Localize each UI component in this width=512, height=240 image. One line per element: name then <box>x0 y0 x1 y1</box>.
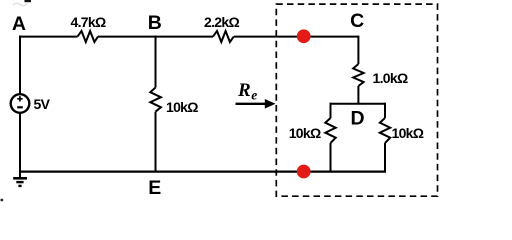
svg-text:1.0kΩ: 1.0kΩ <box>373 70 408 86</box>
wire right branch upper <box>384 103 386 118</box>
minus sign of source <box>17 106 23 108</box>
ground bar 1 <box>13 177 27 180</box>
junction dot bottom (red) <box>297 165 311 179</box>
ground stub <box>19 172 21 178</box>
svg-text:10kΩ: 10kΩ <box>166 99 198 115</box>
junction dot top (red) <box>297 29 311 43</box>
resistor R 4.7k (between A and B) <box>78 31 99 42</box>
node E <box>148 177 161 199</box>
label 10kΩ (right parallel) <box>392 125 424 141</box>
svg-text:10kΩ: 10kΩ <box>392 125 424 141</box>
wire left vertical A to source <box>19 36 21 95</box>
svg-text:5V: 5V <box>34 96 51 112</box>
stray cropped text mark top-left <box>13 0 31 6</box>
arrowhead Re <box>265 99 276 109</box>
ground bar 3 <box>18 185 21 187</box>
wire left branch upper <box>330 103 332 118</box>
wire left branch lower <box>330 143 332 172</box>
label 2.2kΩ <box>204 14 239 30</box>
label 1.0kΩ <box>373 70 408 86</box>
wire B vertical bottom <box>155 112 157 173</box>
stray period bottom-left <box>0 199 3 202</box>
resistor R 2.2k (between B and C) <box>213 31 234 42</box>
arrow Re pointing right <box>236 103 268 105</box>
label 10kΩ (left parallel) <box>289 125 321 141</box>
svg-text:2.2kΩ: 2.2kΩ <box>204 14 239 30</box>
node B <box>148 12 162 34</box>
svg-text:D: D <box>350 108 364 130</box>
resistor R 10k (right parallel) <box>380 118 390 143</box>
svg-text:A: A <box>12 13 26 35</box>
wire C vertical to resistor <box>357 36 359 64</box>
wire B vertical top <box>155 36 157 88</box>
plus sign of source <box>17 96 22 101</box>
voltage source V1 circle <box>11 94 30 113</box>
node A <box>12 13 26 35</box>
label 5V <box>34 96 51 112</box>
wire top A-B-C <box>20 36 358 38</box>
resistor R 10k (left parallel) <box>325 118 335 143</box>
svg-text:B: B <box>148 12 162 34</box>
node D <box>350 108 364 130</box>
label Re <box>237 80 257 103</box>
ground bar 2 <box>16 181 23 183</box>
wire source to bottom <box>19 113 21 173</box>
wire right branch lower <box>384 143 386 172</box>
wire parallel top bar <box>330 103 387 105</box>
resistor R 10k (B-E) <box>150 88 161 112</box>
resistor R 1.0k (C-D) <box>353 64 363 86</box>
label 10kΩ (B-E) <box>166 99 198 115</box>
label 4.7kΩ <box>71 14 106 30</box>
svg-text:Re: Re <box>237 80 257 103</box>
dashed box <box>276 4 437 196</box>
svg-text:10kΩ: 10kΩ <box>289 125 321 141</box>
node C <box>350 10 364 32</box>
svg-text:C: C <box>350 10 364 32</box>
svg-text:E: E <box>148 177 161 199</box>
wire bottom rail <box>20 170 386 172</box>
svg-text:4.7kΩ: 4.7kΩ <box>71 14 106 30</box>
wire 1.0k bottom to bar <box>357 86 359 104</box>
